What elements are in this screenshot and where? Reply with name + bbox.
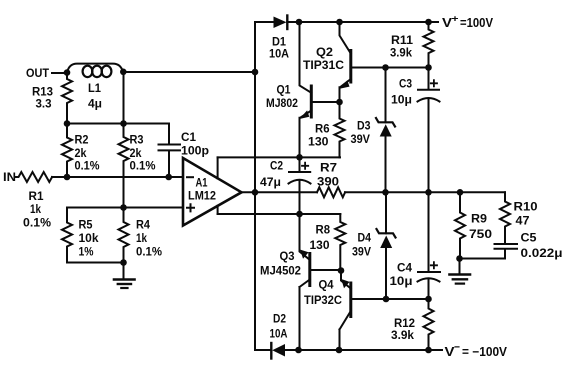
junction R1/R2 inverting node: [64, 174, 71, 181]
svg-text:39V: 39V: [351, 132, 371, 146]
op-amp U1 A1 LM12 triangle: [183, 158, 242, 226]
svg-text:0.1%: 0.1%: [136, 245, 162, 259]
R6 label: [308, 122, 330, 149]
C4 label: [390, 261, 413, 289]
junction R3 top: [120, 120, 127, 127]
svg-text:MJ802: MJ802: [266, 96, 298, 110]
svg-text:10k: 10k: [79, 231, 99, 245]
junction D3 anode / output: [382, 189, 389, 196]
svg-text:R1: R1: [29, 189, 44, 203]
svg-text:OUT: OUT: [26, 66, 50, 80]
capacitor C1: [159, 124, 181, 178]
wire main left vertical (D1/D2 node): [254, 22, 256, 350]
wire op-amp V- pin tap: [217, 206, 219, 214]
node OUT label: [26, 66, 50, 80]
R10 label: [514, 200, 538, 228]
R3 label: [130, 133, 156, 173]
wire V- bottom rail: [285, 349, 442, 351]
resistor R2: [62, 124, 72, 178]
inductor L1: [67, 64, 123, 78]
junction R9 bottom / ground: [456, 255, 463, 262]
svg-text:R5: R5: [79, 218, 93, 232]
junction D3 top / Q2 base line: [382, 64, 389, 71]
net label V- = -100V: [445, 342, 508, 360]
svg-text:Q2: Q2: [316, 45, 333, 59]
capacitor C2: [289, 157, 311, 214]
svg-text:R8: R8: [316, 223, 331, 237]
junction R9 top / output: [457, 189, 464, 196]
wire op-amp output: [242, 191, 318, 193]
capacitor C4: [418, 192, 441, 299]
svg-text:0.1%: 0.1%: [23, 216, 51, 230]
svg-text:0.1%: 0.1%: [75, 159, 100, 173]
C3 polarity plus: [431, 80, 437, 86]
junction Q1 collector / top rail: [296, 19, 303, 26]
Q4 label: [304, 278, 342, 308]
junction C4 bottom / R12 top: [425, 296, 432, 303]
op-amp inverting input marker: [187, 176, 193, 178]
svg-text:4μ: 4μ: [88, 97, 102, 111]
junction R4/R5 ground node: [120, 259, 127, 266]
svg-text:C4: C4: [397, 261, 412, 275]
wire output line to right: [345, 191, 505, 193]
R4 label: [136, 218, 162, 259]
resistor R12: [424, 299, 434, 350]
junction R3/R4 non-inverting node: [120, 204, 127, 211]
svg-text:390: 390: [317, 175, 339, 189]
net label V+ = 100V: [442, 14, 494, 31]
junction OUT line / main vertical: [252, 69, 259, 76]
junction R13/R2 feedback node: [64, 120, 71, 127]
junction Q3 collector / bottom rail: [295, 347, 302, 354]
wire OUT line to main vertical: [123, 71, 255, 73]
svg-text:3.9k: 3.9k: [390, 46, 412, 60]
svg-text:1%: 1%: [79, 245, 94, 259]
svg-text:3.3: 3.3: [36, 97, 52, 111]
D3 label: [351, 119, 371, 147]
svg-text:47μ: 47μ: [260, 175, 281, 189]
transistor Q3 MJ4502: [300, 214, 342, 350]
svg-text:Q1: Q1: [277, 83, 291, 97]
resistor R13: [62, 73, 72, 124]
zener diode D3: [376, 68, 395, 193]
resistor R5: [62, 208, 124, 263]
wire V+ top rail: [287, 21, 438, 23]
svg-text:D3: D3: [357, 119, 371, 133]
zener diode D4: [377, 192, 396, 299]
R8 label: [310, 223, 331, 253]
svg-text:R4: R4: [136, 218, 150, 232]
svg-text:100p: 100p: [181, 144, 209, 158]
C2 label: [260, 159, 283, 190]
resistor R7: [317, 187, 345, 197]
D2 label: [270, 312, 288, 341]
svg-text:R6: R6: [315, 122, 330, 136]
wire op-amp V+ pin tap: [217, 157, 219, 178]
capacitor C3: [418, 68, 440, 193]
wire zobel bottom: [460, 258, 506, 260]
svg-text:L1: L1: [88, 81, 101, 95]
Q1 label: [266, 83, 298, 111]
svg-text:R2: R2: [75, 133, 89, 147]
junction R11 bottom / C3 top: [425, 64, 432, 71]
R7 label: [317, 161, 339, 189]
svg-text:10μ: 10μ: [391, 93, 412, 107]
junction OUT/R13/L1: [64, 69, 71, 76]
wire V+ top rail (left of D1): [255, 21, 274, 23]
junction Q3 emitter / V- pin rail: [296, 211, 303, 218]
C1 label: [181, 130, 209, 158]
svg-text:1k: 1k: [136, 231, 147, 245]
resistor R8: [335, 214, 345, 270]
svg-text:R7: R7: [320, 161, 337, 175]
R5 label: [79, 218, 99, 259]
op-amp non-inverting input marker: [187, 204, 194, 211]
C4 polarity plus: [431, 262, 437, 268]
junction R11 top / V+ terminal: [425, 19, 432, 26]
svg-text:C2: C2: [270, 159, 283, 173]
svg-text:1k: 1k: [30, 202, 41, 216]
junction L1/feedback vertical: [120, 69, 127, 76]
wire feedback node horizontal: [67, 123, 169, 125]
junction R12 bottom / V- terminal: [425, 347, 432, 354]
R13 label: [32, 85, 53, 111]
junction Q4 collector / bottom rail: [336, 347, 343, 354]
D4 label: [352, 231, 371, 259]
svg-text:R3: R3: [130, 133, 144, 147]
ground (input network): [114, 263, 135, 289]
junction D4 bottom / Q4 base line: [383, 296, 390, 303]
svg-text:C3: C3: [399, 77, 412, 91]
D1 label: [269, 35, 289, 61]
junction Q1 base / Q2 emitter / R6: [336, 99, 343, 106]
wire inverting input line: [52, 176, 183, 178]
svg-text:R9: R9: [471, 212, 487, 226]
transistor Q1 MJ802: [299, 22, 339, 157]
R1 label: [23, 189, 51, 230]
transistor Q2 TIP31C: [340, 22, 429, 102]
node IN label: [3, 170, 16, 184]
svg-text:=100V: =100V: [460, 16, 494, 30]
wire non-inverting input line: [67, 207, 183, 209]
svg-text:39V: 39V: [352, 245, 371, 259]
R12 label: [391, 316, 415, 342]
svg-text:Q3: Q3: [280, 249, 295, 263]
resistor R4: [119, 208, 129, 263]
junction Q3 base / Q4 emitter / R8: [338, 267, 345, 274]
op-amp A1 label: [188, 176, 216, 203]
resistor R3: [119, 124, 129, 208]
svg-text:0.022μ: 0.022μ: [521, 246, 563, 260]
wire op-amp V+ pin rail: [218, 156, 340, 158]
svg-text:TIP32C: TIP32C: [304, 293, 342, 307]
C2 polarity plus: [302, 163, 308, 169]
C5 label: [521, 231, 563, 261]
svg-text:= −100V: = −100V: [462, 345, 508, 359]
svg-text:3.9k: 3.9k: [391, 328, 414, 342]
junction op-amp output: [252, 189, 259, 196]
resistor R11: [424, 22, 434, 68]
junction Q1 emitter / V+ pin rail: [296, 154, 303, 161]
R2 label: [75, 133, 100, 173]
svg-text:10μ: 10μ: [390, 274, 413, 288]
C3 label: [391, 77, 412, 107]
ground (zobel): [450, 259, 471, 284]
svg-text:10A: 10A: [270, 327, 288, 341]
resistor R6: [335, 102, 345, 157]
L1 value label: [88, 81, 102, 111]
svg-text:C5: C5: [521, 231, 537, 245]
svg-text:TIP31C: TIP31C: [303, 58, 344, 72]
svg-text:R10: R10: [514, 200, 538, 214]
transistor Q4 TIP32C: [340, 271, 429, 351]
wire OUT lead: [52, 72, 66, 74]
svg-text:750: 750: [469, 227, 492, 241]
svg-text:130: 130: [308, 135, 329, 149]
svg-text:D2: D2: [273, 312, 286, 326]
svg-text:MJ4502: MJ4502: [260, 264, 301, 278]
Q2 label: [303, 45, 344, 72]
svg-text:LM12: LM12: [188, 189, 216, 203]
svg-text:47: 47: [516, 214, 530, 228]
svg-text:A1: A1: [196, 176, 208, 190]
junction C3/C4 / output: [425, 189, 432, 196]
svg-text:−: −: [454, 342, 460, 354]
resistor R9: [455, 192, 465, 258]
wire op-amp V- pin rail: [218, 213, 341, 215]
diode D1: [274, 16, 288, 30]
svg-text:D4: D4: [358, 231, 372, 245]
junction C1 bottom: [165, 174, 172, 181]
svg-text:10A: 10A: [269, 47, 289, 61]
R9 label: [469, 212, 492, 242]
svg-text:IN: IN: [3, 170, 16, 184]
R11 label: [390, 33, 413, 60]
diode D2: [271, 343, 285, 359]
Q3 label: [260, 249, 301, 278]
svg-text:+: +: [452, 14, 459, 24]
svg-text:C1: C1: [181, 130, 196, 144]
wire L1 right junction down to feedback node: [123, 72, 125, 124]
svg-text:0.1%: 0.1%: [130, 159, 156, 173]
svg-text:Q4: Q4: [319, 278, 334, 292]
capacitor C5: [495, 244, 518, 259]
resistor R10: [500, 192, 510, 244]
junction Q2 collector / top rail: [336, 19, 343, 26]
wire V- bottom rail (left of D2): [255, 349, 271, 351]
svg-text:130: 130: [310, 238, 330, 252]
resistor R1: [16, 172, 52, 182]
